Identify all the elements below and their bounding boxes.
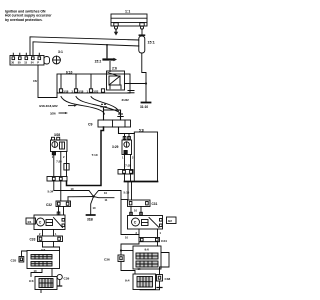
svg-text:31:10: 31:10 <box>140 105 148 109</box>
connector C32 <box>46 197 71 215</box>
svg-text:C34: C34 <box>161 239 167 243</box>
svg-text:11: 11 <box>105 198 108 202</box>
svg-text:10: 10 <box>71 187 74 191</box>
wires below strip <box>48 181 90 201</box>
note text block <box>5 10 52 22</box>
resistor box 9:5 <box>27 248 60 268</box>
relay pins <box>57 89 105 94</box>
svg-text:C32: C32 <box>46 203 52 207</box>
svg-text:31/32: 31/32 <box>122 98 130 102</box>
wiper motor 4/2 <box>128 216 177 230</box>
wires strip to thick edge and to C31 <box>124 174 132 200</box>
svg-text:10: 10 <box>125 235 128 239</box>
wires motor to C34 <box>136 229 162 238</box>
wire L2 capsule to ignition switch <box>33 42 139 56</box>
relay 2:6 <box>107 67 125 91</box>
svg-text:C9: C9 <box>88 123 93 127</box>
wires motor to C33 <box>39 230 57 237</box>
svg-text:7:10: 7:10 <box>92 153 98 157</box>
connector C39 <box>57 274 69 286</box>
wire C34 to C36 <box>120 242 158 255</box>
svg-text:6:10: 6:10 <box>66 71 73 75</box>
ground 31:10 <box>140 103 151 110</box>
pump motor 9:4 <box>125 274 156 290</box>
wires unit to strip <box>52 152 69 177</box>
svg-text:C36: C36 <box>104 258 110 262</box>
svg-text:15:2: 15:2 <box>95 60 102 64</box>
relay carrier internal wires <box>61 74 91 89</box>
splice bundle wires to C9 <box>39 97 120 116</box>
connector C38 <box>140 275 170 290</box>
svg-text:3/18-3/18,3/22: 3/18-3/18,3/22 <box>39 104 58 108</box>
pump motor 9:3 <box>29 277 57 290</box>
svg-text:2: 2 <box>39 232 41 236</box>
connector C31 <box>128 200 158 216</box>
svg-text:54: 54 <box>31 62 34 65</box>
connector C33 <box>30 236 63 242</box>
wires 9:5 to motor 9:3 <box>31 269 52 277</box>
svg-text:C39: C39 <box>64 276 70 280</box>
stub under 9:3 <box>40 290 42 293</box>
svg-text:1: 1 <box>160 231 162 235</box>
svg-text:C: C <box>39 221 42 225</box>
wiper motor 4/1 <box>26 215 65 230</box>
svg-text:1:1: 1:1 <box>125 10 130 14</box>
C9 pins top <box>101 104 123 116</box>
connector C35 <box>11 251 28 262</box>
wire C9 to headlamp unit 3:29 <box>119 127 135 134</box>
wire ignition switch to relay box corner <box>33 65 57 98</box>
svg-text:10: 10 <box>93 206 96 210</box>
C9 top entry jog <box>104 108 121 120</box>
svg-text:C38: C38 <box>165 277 171 281</box>
svg-text:C: C <box>134 221 137 225</box>
svg-text:15/: 15/ <box>33 79 37 83</box>
svg-text:2:6: 2:6 <box>112 67 117 71</box>
svg-text:50: 50 <box>18 62 21 65</box>
wire node 15:2 connector <box>95 44 118 72</box>
svg-text:9:4: 9:4 <box>125 279 130 283</box>
svg-text:P: P <box>37 62 39 65</box>
svg-text:9:6: 9:6 <box>145 248 150 252</box>
svg-text:3:1: 3:1 <box>58 50 63 54</box>
svg-text:C35: C35 <box>11 258 17 262</box>
resistor box 9:6 <box>133 246 161 269</box>
svg-text:10: 10 <box>134 209 137 213</box>
wires unit to strip right <box>122 155 134 170</box>
svg-text:1: 1 <box>122 156 124 160</box>
svg-text:2: 2 <box>132 156 134 160</box>
headlamp wiper unit 3:29 <box>112 134 132 155</box>
connector capsule 15:1 <box>139 35 155 53</box>
svg-text:4/1: 4/1 <box>27 220 32 224</box>
svg-text:7:24: 7:24 <box>56 160 62 164</box>
pin 31/32 <box>122 91 135 103</box>
svg-text:30: 30 <box>11 62 14 65</box>
fuse box 1:1 <box>111 10 147 30</box>
svg-text:9:3: 9:3 <box>29 279 34 283</box>
ignition switch 3:1 <box>10 50 63 65</box>
wire L1 capsule to ignition switch <box>30 37 139 56</box>
washer unit 3/28 <box>51 133 68 155</box>
svg-text:3/18: 3/18 <box>78 90 84 94</box>
svg-text:3/22: 3/22 <box>93 90 99 94</box>
svg-text:15:1: 15:1 <box>148 41 155 45</box>
svg-text:C33: C33 <box>30 237 36 241</box>
svg-text:1: 1 <box>55 232 57 236</box>
connector C34 <box>139 238 167 243</box>
ground 31B <box>87 197 96 222</box>
svg-text:5:10: 5:10 <box>124 190 130 194</box>
svg-text:by overload protection.: by overload protection. <box>5 18 43 22</box>
connector C9 <box>88 120 131 127</box>
svg-text:31B: 31B <box>87 218 94 222</box>
wires C33 to resistor 9:5 <box>43 242 60 251</box>
svg-text:4/2: 4/2 <box>168 219 173 223</box>
svg-text:3/18: 3/18 <box>63 90 69 94</box>
svg-text:10: 10 <box>104 191 107 195</box>
svg-text:C31: C31 <box>152 202 158 206</box>
wire relay to ground junction <box>125 83 147 85</box>
svg-text:3/26: 3/26 <box>50 111 56 115</box>
wire 9:6 to C38 <box>160 253 170 275</box>
connector C36 <box>104 255 141 274</box>
svg-text:3/28: 3/28 <box>54 133 60 137</box>
relay carrier box <box>57 71 130 94</box>
connector strip left <box>47 177 67 182</box>
svg-text:5:34: 5:34 <box>48 189 54 193</box>
svg-text:2: 2 <box>63 155 65 159</box>
svg-text:3:29: 3:29 <box>112 145 119 149</box>
svg-text:7:18: 7:18 <box>125 163 131 167</box>
ground splice X <box>68 191 139 235</box>
wire fuse to connector 15:1 <box>141 29 143 36</box>
heavy wire C9 to left strip <box>67 127 104 186</box>
svg-text:10: 10 <box>34 269 37 273</box>
svg-text:15: 15 <box>24 62 27 65</box>
wire capsule down to ground <box>142 53 147 102</box>
control unit box 5:8 <box>125 128 158 181</box>
connector strip right <box>118 170 133 175</box>
feed arrow 30 <box>114 29 118 35</box>
